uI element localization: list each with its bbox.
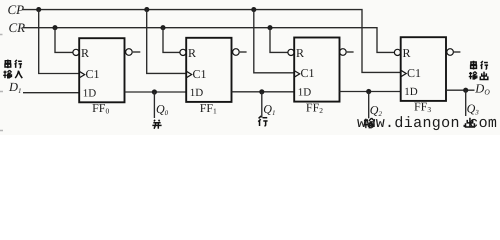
- FF3 Qbar stub: [454, 51, 460, 53]
- label Q1: [263, 102, 275, 117]
- junction CP-FF1: [144, 7, 149, 12]
- label serial output 输出: [469, 72, 488, 80]
- junction CR-FF0: [52, 25, 57, 30]
- label serial input 串行: [5, 60, 22, 69]
- flip-flop FF2 box: [294, 38, 339, 102]
- label FF1: [200, 101, 217, 116]
- flip-flop FF0 box: [79, 38, 124, 102]
- junction CP-FF0: [36, 7, 41, 12]
- FF1 Qbar bubble: [233, 49, 240, 56]
- FF3 pin R: [403, 46, 411, 60]
- wire Q2 drop: [368, 92, 370, 119]
- FF3 pin 1D: [404, 86, 418, 98]
- scan tick left edge 1: [0, 34, 3, 36]
- svg-text:R: R: [81, 46, 89, 60]
- FF3 pin C1: [407, 66, 421, 80]
- wire D1 input: [23, 92, 79, 94]
- junction Q2: [366, 89, 371, 94]
- svg-text:R: R: [296, 46, 304, 60]
- FF1 R bubble: [180, 49, 186, 55]
- label FF2: [306, 101, 323, 116]
- FF0 pin 1D: [83, 88, 97, 100]
- svg-text:CP: CP: [8, 2, 25, 17]
- FF3 clock chevron: [401, 70, 407, 77]
- FF3 R bubble: [394, 49, 400, 55]
- svg-text:1D: 1D: [404, 86, 418, 98]
- junction Q3: [463, 88, 468, 93]
- label D0: [474, 82, 490, 97]
- flip-flop FF3 box: [401, 37, 446, 101]
- svg-text:CR: CR: [9, 20, 26, 35]
- label Q2: [370, 103, 383, 118]
- wire CR to FF1 R: [163, 28, 180, 53]
- junction CP-FF2: [251, 7, 256, 12]
- FF0 R bubble: [73, 49, 79, 55]
- wire Q3 drop: [465, 90, 467, 116]
- FF2 R bubble: [288, 49, 294, 55]
- wire FF0.Q to FF1.1D: [125, 91, 187, 93]
- svg-text:C1: C1: [407, 66, 421, 80]
- wire CR bus: [23, 28, 395, 53]
- wire Q0 drop: [153, 92, 155, 118]
- label 输: [364, 118, 375, 128]
- label serial output 串行: [471, 61, 488, 70]
- wire CP to FF0 C1: [39, 10, 79, 74]
- svg-text:1D: 1D: [190, 87, 204, 99]
- junction Q0: [152, 89, 157, 94]
- svg-text:1D: 1D: [83, 88, 97, 100]
- svg-text:R: R: [403, 46, 411, 60]
- FF2 pin R: [296, 46, 304, 60]
- wire CR to FF0 R: [55, 28, 73, 53]
- svg-text:C1: C1: [193, 67, 207, 81]
- FF2 Qbar stub: [347, 51, 354, 53]
- label FF3: [414, 100, 431, 115]
- label D1: [8, 80, 22, 95]
- FF2 Qbar bubble: [340, 49, 347, 56]
- svg-text:C1: C1: [86, 67, 100, 81]
- label CR: [9, 20, 26, 35]
- label 并: [152, 120, 161, 129]
- wire CP to FF2 C1: [254, 10, 294, 73]
- junction Q1: [259, 89, 264, 94]
- label 出: [466, 118, 475, 127]
- FF1 pin C1: [193, 67, 207, 81]
- FF3 Qbar bubble: [447, 49, 454, 56]
- watermark www.diangon.com: [357, 115, 497, 132]
- FF1 pin R: [188, 46, 196, 60]
- FF0 clock chevron: [79, 71, 85, 78]
- FF1 Qbar stub: [240, 51, 247, 53]
- flip-flop FF1 box: [186, 38, 231, 102]
- wire CP to FF1 C1: [147, 10, 187, 74]
- FF0 pin R: [81, 46, 89, 60]
- FF0 Qbar bubble: [126, 49, 133, 56]
- label FF0: [92, 101, 109, 116]
- wire FF3.Q serial out: [446, 89, 475, 91]
- wire FF2.Q to FF3.1D: [340, 91, 401, 93]
- svg-text:C1: C1: [301, 66, 315, 80]
- wire Q1 drop: [261, 92, 263, 118]
- FF0 Qbar stub: [133, 51, 141, 53]
- FF2 clock chevron: [294, 71, 300, 78]
- svg-text:R: R: [188, 46, 196, 60]
- label serial input 输入: [3, 70, 22, 78]
- FF2 pin 1D: [298, 86, 312, 98]
- label 行: [258, 116, 267, 126]
- FF2 pin C1: [301, 66, 315, 80]
- svg-text:www.diangon.com: www.diangon.com: [357, 115, 497, 132]
- label Q3: [467, 102, 480, 117]
- label CP: [8, 2, 25, 17]
- junction CR-FF2: [267, 25, 272, 30]
- FF0 pin C1: [86, 67, 100, 81]
- FF1 pin 1D: [190, 87, 204, 99]
- junction CR-FF1: [160, 25, 165, 30]
- svg-text:1D: 1D: [298, 86, 312, 98]
- wire FF1.Q to FF2.1D: [232, 91, 295, 93]
- wire CP bus: [22, 10, 401, 73]
- wire CR to FF2 R: [270, 28, 288, 53]
- FF1 clock chevron: [186, 71, 192, 78]
- scan tick left edge 2: [0, 91, 3, 93]
- scan tick left edge 3: [0, 130, 3, 132]
- label Q0: [156, 102, 169, 117]
